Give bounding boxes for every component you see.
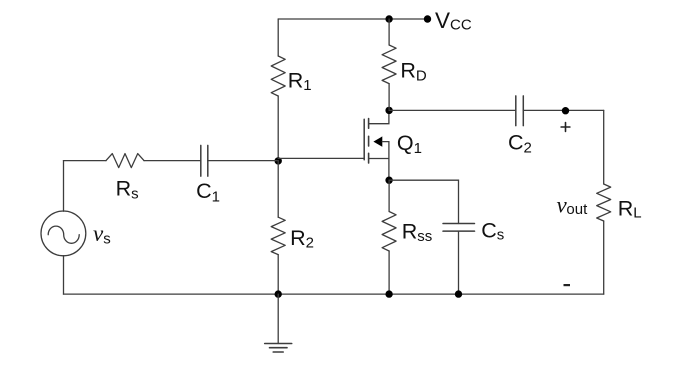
ground <box>265 294 292 352</box>
node drain junction <box>385 107 392 114</box>
wire drain rail to C2 <box>389 109 516 111</box>
wire source to bottom rail <box>63 256 65 295</box>
node rail Cs junction <box>455 290 462 297</box>
label R2 <box>290 226 314 252</box>
svg-text:Rs: Rs <box>116 177 139 203</box>
resistor Rss <box>382 212 396 252</box>
label vs <box>93 221 111 247</box>
label VCC <box>435 8 472 34</box>
wire top rail right <box>389 18 427 20</box>
node output junction <box>562 107 569 114</box>
node rail Rss junction <box>385 290 392 297</box>
svg-text:RD: RD <box>400 58 427 84</box>
node top rail junction <box>385 15 392 22</box>
svg-text:Rss: Rss <box>402 220 433 245</box>
source vs <box>41 211 86 256</box>
wire bottom rail <box>64 293 604 295</box>
label minus <box>564 284 571 286</box>
resistor RD <box>382 45 396 84</box>
wire R1 top lead <box>277 19 279 56</box>
wire R1 bottom lead <box>277 96 279 161</box>
wire R2 bottom lead <box>277 255 279 295</box>
svg-text:RL: RL <box>618 196 642 221</box>
svg-text:out: out <box>566 201 588 218</box>
node VCC terminal <box>424 15 431 22</box>
wire C1 to gate node <box>208 160 278 162</box>
label Rss <box>402 220 433 245</box>
wire output right vertical upper <box>603 110 605 184</box>
wire RD bottom lead <box>388 84 390 111</box>
resistor R2 <box>271 217 285 254</box>
svg-text:Cs: Cs <box>481 218 504 243</box>
svg-text:C1: C1 <box>196 179 220 205</box>
svg-text:s: s <box>103 230 111 247</box>
capacitor Cs <box>443 224 475 232</box>
wire RD top lead <box>388 19 390 45</box>
label Cs <box>481 218 504 243</box>
transistor Q1 <box>364 110 389 180</box>
label C2 <box>508 131 532 157</box>
node gate junction <box>275 157 282 164</box>
wire R2 top lead <box>277 161 279 218</box>
wire Rs to C1 <box>144 160 201 162</box>
svg-text:R2: R2 <box>290 226 314 252</box>
label RD <box>400 58 427 84</box>
svg-text:C2: C2 <box>508 131 532 157</box>
label plus <box>561 123 570 132</box>
resistor RL <box>597 184 611 221</box>
svg-text:R1: R1 <box>288 68 312 94</box>
wire Rss top lead <box>388 180 390 211</box>
label Rs <box>116 177 139 203</box>
wire source node to Cs branch <box>389 180 458 223</box>
node rail ground junction <box>275 290 282 297</box>
wire gate lead <box>278 157 364 159</box>
label Q1 <box>397 131 422 157</box>
label RL <box>618 196 642 221</box>
label C1 <box>196 179 220 205</box>
resistor R1 <box>271 56 285 96</box>
svg-text:VCC: VCC <box>435 8 472 34</box>
wire Rss bottom lead <box>388 251 390 294</box>
wire Cs bottom lead <box>458 231 460 294</box>
capacitor C1 <box>201 145 208 176</box>
resistor Rs <box>106 154 144 168</box>
label vout <box>557 193 589 218</box>
label R1 <box>288 68 312 94</box>
wire top rail left <box>278 18 389 20</box>
wire input left vertical <box>63 161 65 212</box>
wire output right vertical lower <box>603 221 605 294</box>
node source junction <box>385 177 392 184</box>
wire C2 to output corner <box>523 109 603 111</box>
capacitor C2 <box>516 96 524 126</box>
svg-text:Q1: Q1 <box>397 131 422 157</box>
wire input left horizontal <box>64 160 107 162</box>
